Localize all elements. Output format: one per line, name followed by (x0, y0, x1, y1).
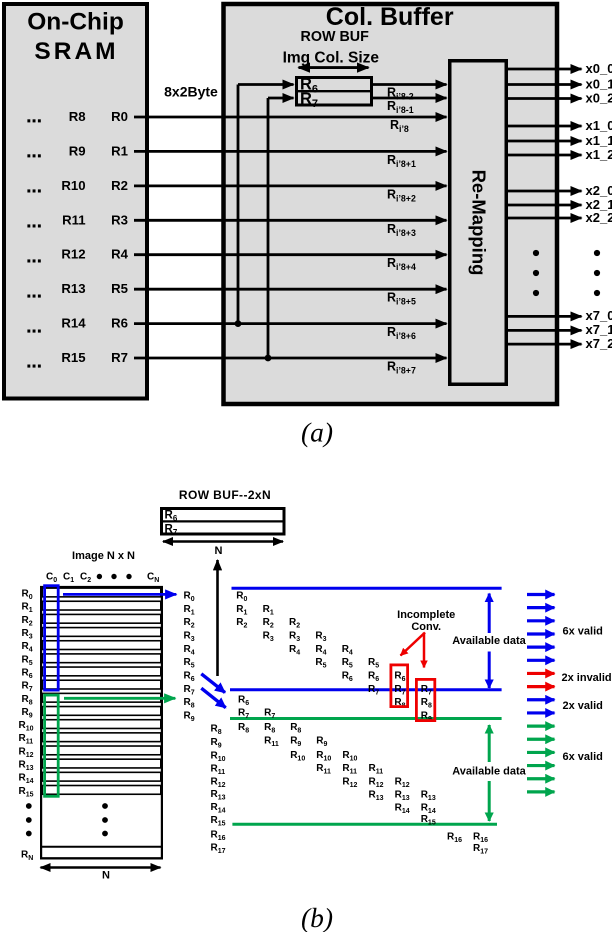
svg-text:x1_0: x1_0 (586, 118, 612, 133)
svg-text:x7_0: x7_0 (586, 308, 612, 323)
svg-text:6x valid: 6x valid (563, 751, 603, 763)
svg-text:R4: R4 (111, 247, 129, 262)
svg-text:R8: R8 (69, 109, 86, 124)
svg-text:R5: R5 (111, 281, 128, 296)
svg-text:(a): (a) (301, 416, 333, 447)
svg-text:R13: R13 (61, 281, 85, 296)
svg-text:R14: R14 (61, 316, 86, 331)
svg-text:R2: R2 (111, 178, 128, 193)
svg-text:N: N (102, 870, 110, 882)
svg-text:6x valid: 6x valid (563, 625, 603, 637)
svg-text:R3: R3 (111, 212, 128, 227)
svg-text:R10: R10 (61, 178, 85, 193)
svg-text:R1: R1 (111, 143, 128, 158)
svg-text:R15: R15 (61, 350, 85, 365)
svg-text:Col. Buffer: Col. Buffer (326, 3, 454, 31)
svg-text:x2_2: x2_2 (586, 210, 612, 225)
svg-text:ROW BUF: ROW BUF (301, 29, 370, 45)
svg-text:x1_2: x1_2 (586, 147, 612, 162)
svg-text:Available data: Available data (452, 765, 526, 777)
svg-text:Re-Mapping: Re-Mapping (469, 170, 490, 276)
svg-text:x0_1: x0_1 (586, 76, 612, 91)
svg-text:ROW BUF--2xN: ROW BUF--2xN (179, 488, 271, 502)
svg-text:x0_2: x0_2 (586, 90, 612, 105)
svg-text:2x valid: 2x valid (563, 700, 603, 712)
svg-text:R7: R7 (111, 350, 128, 365)
svg-text:x2_0: x2_0 (586, 183, 612, 198)
svg-text:8x2Byte: 8x2Byte (164, 84, 218, 100)
svg-text:R12: R12 (61, 247, 85, 262)
svg-text:On-Chip: On-Chip (27, 9, 124, 36)
svg-text:R11: R11 (62, 212, 85, 227)
svg-text:R0: R0 (111, 109, 128, 124)
svg-text:x7_2: x7_2 (586, 336, 612, 351)
svg-text:2x invalid: 2x invalid (562, 672, 612, 684)
svg-text:SRAM: SRAM (34, 38, 118, 65)
svg-text:Available data: Available data (452, 635, 526, 647)
svg-text:R9: R9 (69, 143, 86, 158)
svg-text:N: N (215, 545, 223, 557)
svg-text:Conv.: Conv. (411, 621, 441, 633)
svg-text:x1_1: x1_1 (586, 133, 612, 148)
svg-text:Image N x N: Image N x N (72, 550, 135, 562)
svg-text:Incomplete: Incomplete (397, 609, 455, 621)
svg-text:R6: R6 (111, 316, 128, 331)
svg-text:(b): (b) (301, 902, 333, 932)
svg-text:Img Col. Size: Img Col. Size (283, 50, 380, 67)
svg-text:x0_0: x0_0 (586, 61, 612, 76)
